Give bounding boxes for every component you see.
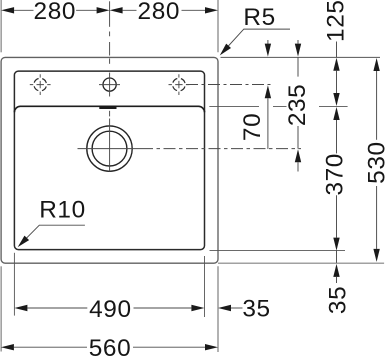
right side: bowl bottom edge extension: [210, 249, 346, 251]
center tap hole: [103, 78, 116, 91]
right tap hole dashed crosshair: [169, 84, 190, 86]
svg-text:530: 530: [364, 141, 387, 184]
dimension 560: arrows line text: [1, 344, 14, 350]
right optional tap hole (dashed): [173, 78, 186, 91]
dimension 35 bottom horizontal: arrow tail text: [218, 305, 231, 311]
svg-text:35: 35: [242, 296, 270, 323]
svg-text:R10: R10: [39, 197, 86, 224]
dimension 125: line and arrows: [336, 42, 338, 58]
right side: bowl top edge extension segments: [209, 105, 347, 107]
svg-text:70: 70: [239, 113, 266, 141]
outer bottom edge extension (right of sink): [218, 262, 384, 264]
bowl top edge 490x370 bowl: [14, 106, 204, 112]
dimension 490: arrows line text: [14, 305, 27, 311]
bottom extension line outer-left: [0, 266, 2, 351]
svg-text:370: 370: [321, 153, 348, 196]
svg-text:235: 235: [284, 84, 311, 127]
dimension 370: arrows and line: [333, 107, 339, 120]
dimension 280 left: line: [14, 9, 97, 11]
R10 leader arrowhead: [18, 236, 29, 248]
svg-text:280: 280: [138, 0, 181, 25]
drain outer circle: [87, 126, 132, 171]
bottom extension line rim-right: [204, 256, 206, 317]
dimension 235: lower arrow and tail: [295, 149, 301, 162]
drain inner circle: [92, 131, 127, 166]
svg-text:280: 280: [34, 0, 77, 25]
dimension 280 left: arrows: [1, 7, 14, 13]
top dimension extension line right: [217, 0, 219, 52]
rim ledge inner outline: [14, 71, 204, 250]
left optional tap hole (dashed): [34, 78, 47, 91]
svg-text:560: 560: [89, 335, 132, 357]
dimension 280 right: arrows: [110, 7, 123, 13]
dimension 70 (top to tap centerline): upper arrow: [267, 40, 269, 44]
dimension 235: line: [297, 57, 299, 148]
drain horizontal centerline: [78, 148, 142, 150]
R5 leader arrowhead: [220, 44, 231, 56]
overflow mark: [99, 106, 116, 109]
svg-text:35: 35: [324, 286, 351, 314]
right side: tap centerline extension: [186, 84, 271, 86]
outer sink outline 560x530: [1, 57, 218, 263]
svg-text:490: 490: [89, 296, 132, 323]
drain vertical centerline: [109, 119, 111, 172]
right side: top edge extension line: [221, 56, 381, 58]
svg-text:125: 125: [323, 0, 350, 42]
dimension 235: upper arrow: [297, 40, 299, 44]
dimension 70: lower arrow and tail: [265, 85, 271, 98]
left tap hole dashed crosshair: [30, 84, 51, 86]
svg-text:R5: R5: [243, 4, 275, 31]
bottom extension line outer-right: [217, 266, 219, 352]
R5 leader line: [222, 29, 291, 53]
vertical centerline dashes: [109, 1, 111, 27]
center tap hole crosshair: [99, 84, 120, 86]
R10 leader line: [20, 225, 85, 245]
bottom extension line rim-left: [13, 253, 15, 316]
dimension 35 bottom-right vertical: line arrow text: [336, 251, 338, 263]
dimension 280 right: line: [123, 9, 205, 11]
top dimension extension line left: [0, 0, 2, 52]
dimension 530: arrows line text: [373, 58, 379, 71]
